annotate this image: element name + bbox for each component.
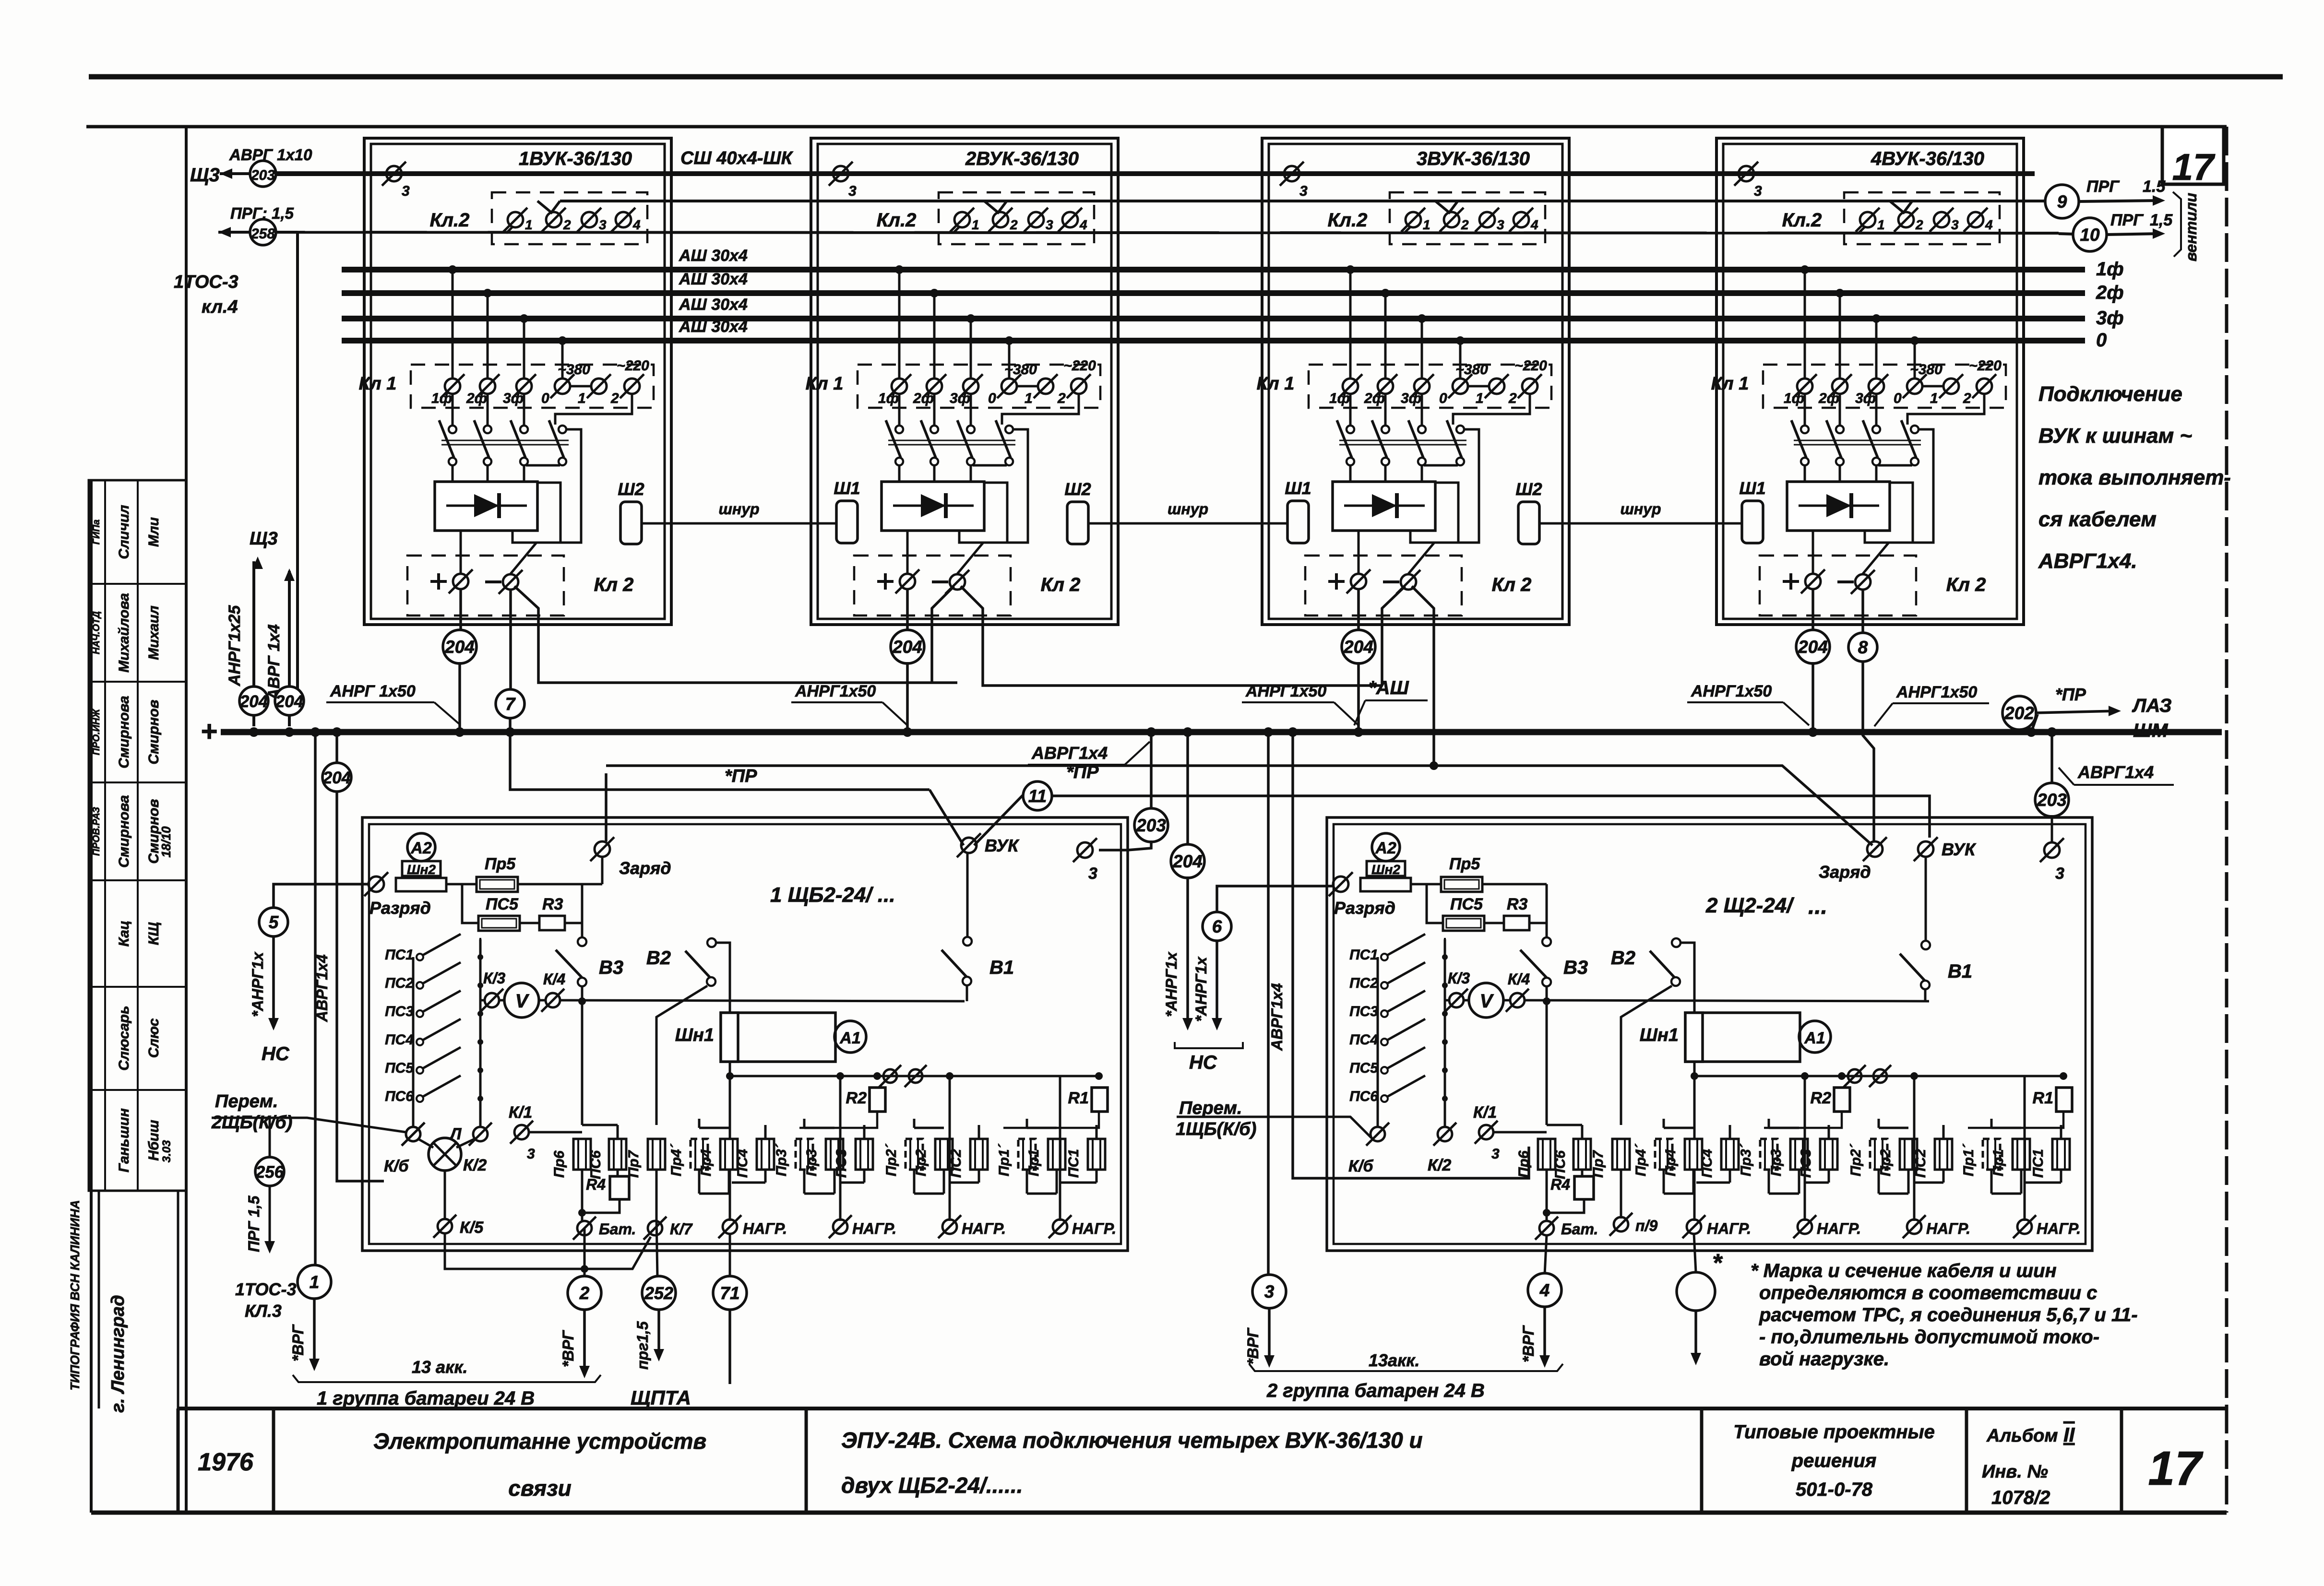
- wire 1 down: [313, 1298, 316, 1367]
- link terminal a: [879, 1065, 901, 1087]
- voltmeter V: [504, 983, 539, 1018]
- stamp row line: [89, 583, 186, 585]
- block frame 1ВУК outer: [364, 138, 671, 625]
- page number box (top right): [2162, 127, 2224, 184]
- terminal - DC: [1396, 570, 1420, 594]
- shunt Шн2 label box: [1367, 861, 1405, 876]
- rectifier box U3: [1333, 482, 1435, 531]
- rectifier unit U3 3ВУК-36/130: [1257, 138, 1569, 625]
- svg-text:~380: ~380: [1910, 362, 1943, 378]
- svg-text:204: 204: [1798, 637, 1828, 657]
- wire ~220 to pole4: [1002, 394, 1079, 425]
- wire rectifier to +: [1358, 531, 1360, 573]
- svg-text:ПС1: ПС1: [1349, 947, 1378, 963]
- wire R2 tap: [1764, 1112, 1842, 1128]
- U3 + wire to bus: [1357, 590, 1360, 631]
- terminal + DC: [449, 569, 473, 593]
- svg-text:9: 9: [2057, 192, 2067, 212]
- wire rectifier to +: [906, 531, 909, 573]
- wire link 0-1: [1468, 385, 1489, 388]
- connection 203: [250, 161, 276, 187]
- fuse ПС5: [478, 916, 520, 931]
- wire branch join down to В3: [581, 884, 584, 937]
- wire К/7 to 252: [656, 1219, 657, 1277]
- svg-text:К/3: К/3: [483, 970, 506, 987]
- switch В1 (2ЩБ): [1921, 941, 1930, 949]
- contact bottom: [1801, 458, 1809, 465]
- terminal НАГР 4: [2013, 1215, 2036, 1238]
- svg-text:ПС5: ПС5: [1450, 895, 1483, 913]
- svg-text:203: 203: [250, 167, 275, 183]
- svg-text:204: 204: [892, 637, 922, 657]
- terminal ∅4: [1509, 208, 1533, 232]
- svg-text:НС: НС: [1189, 1052, 1217, 1073]
- + terminal: [1328, 580, 1345, 583]
- contact bottom: [967, 458, 975, 465]
- shunt Шн1 outer: [721, 1013, 835, 1062]
- terminal К/4: [541, 989, 564, 1012]
- svg-text:2ф: 2ф: [1818, 391, 1839, 406]
- terminal Заряд 1ЩБ: [590, 837, 614, 861]
- bracket 13 акк group2: [1249, 1364, 1563, 1371]
- fuse ПС5: [1443, 916, 1484, 931]
- svg-text:Пр3´: Пр3´: [1738, 1143, 1754, 1176]
- contact top: [1801, 426, 1809, 433]
- terminal Кл1 1ф: [1793, 374, 1817, 398]
- svg-text:Сличил: Сличил: [116, 505, 132, 559]
- switch ПС4 blade: [1387, 1019, 1425, 1040]
- terminal strip Кл1 of U1: [411, 365, 654, 408]
- wire АНРГ1х25 up: [252, 561, 255, 717]
- junction tap 3: [966, 314, 975, 323]
- svg-text:1: 1: [1877, 217, 1885, 232]
- svg-text:R3: R3: [1507, 895, 1528, 913]
- junction tap 1: [895, 265, 904, 274]
- switch В2 blade: [685, 951, 710, 978]
- svg-text:НАГР.: НАГР.: [962, 1220, 1006, 1237]
- svg-text:* Марка и сечение кабеля и шин: * Марка и сечение кабеля и шин: [1751, 1260, 2057, 1281]
- svg-text:1ф: 1ф: [1784, 391, 1804, 406]
- svg-text:256: 256: [255, 1163, 284, 1182]
- svg-text:18/10: 18/10: [159, 826, 173, 858]
- wire шнур link: [1088, 522, 1287, 525]
- junction on + bus: [1354, 727, 1363, 737]
- connector Ш2 of U1: [620, 502, 642, 544]
- svg-text:К/3: К/3: [1448, 970, 1470, 987]
- connection (unnumbered): [1677, 1272, 1715, 1311]
- connection 204 (left a): [239, 686, 268, 715]
- switch ПС6 blade: [423, 1076, 461, 1097]
- terminal strip Кл2(DC) of U1: [407, 556, 564, 615]
- junction on + bus: [2047, 727, 2057, 737]
- terminal Кл1 3ф: [512, 374, 536, 398]
- svg-text:2: 2: [1915, 217, 1923, 232]
- svg-text:*АНРГ1х: *АНРГ1х: [1192, 957, 1210, 1022]
- svg-text:Пр5: Пр5: [1449, 855, 1480, 873]
- block frame 2ВУК outer: [811, 138, 1118, 625]
- terminal п/9: [1609, 1213, 1633, 1236]
- terminal strip Кл.2 of U2: [939, 192, 1094, 244]
- switch linkage bar2: [1339, 444, 1466, 446]
- terminal Кл1 2ф: [922, 374, 946, 398]
- svg-text:ся кабелем: ся кабелем: [2038, 508, 2157, 531]
- wire tap down: [1459, 341, 1462, 378]
- junction on + bus: [285, 727, 294, 737]
- svg-text:ПС6: ПС6: [588, 1150, 604, 1179]
- svg-text:3: 3: [402, 183, 410, 199]
- wire Шн2 to Пр5: [1411, 883, 1441, 886]
- wire group mid down: [839, 1076, 842, 1221]
- svg-text:Бат.: Бат.: [1561, 1220, 1598, 1238]
- svg-text:1: 1: [525, 217, 533, 232]
- wire link 0-1: [571, 385, 591, 388]
- svg-text:АВРГ1х4.: АВРГ1х4.: [2038, 549, 2137, 573]
- svg-text:1: 1: [1476, 391, 1484, 406]
- connection 258: [250, 219, 276, 245]
- battery switchboard 2ЩБ2-24: [1327, 817, 2092, 1251]
- resistor R4: [1574, 1176, 1594, 1199]
- svg-text:ПС3: ПС3: [1349, 1004, 1378, 1019]
- svg-text:Пр1´: Пр1´: [996, 1143, 1012, 1176]
- svg-text:ПС6: ПС6: [1349, 1089, 1378, 1104]
- wire СШ 40x4: [276, 171, 2035, 176]
- - terminal: [1837, 580, 1854, 583]
- contact top: [449, 426, 456, 433]
- wire pole to rectifier: [1421, 465, 1423, 482]
- junction tap 4: [1910, 336, 1919, 345]
- svg-text:шнур: шнур: [1620, 500, 1661, 518]
- svg-text:*ПР: *ПР: [2055, 685, 2086, 704]
- stamp row line: [89, 879, 186, 881]
- svg-text:Пр3: Пр3: [804, 1149, 820, 1176]
- contact bottom: [1418, 458, 1426, 465]
- svg-text:Слюс: Слюс: [146, 1018, 162, 1058]
- terminal СШ entry U2: [829, 162, 853, 186]
- svg-text:К/4: К/4: [543, 971, 566, 988]
- svg-text:Заряд: Заряд: [619, 858, 671, 878]
- svg-text:Типовые проектные: Типовые проектные: [1733, 1421, 1935, 1443]
- shunt Шн1 outer: [1685, 1013, 1800, 1062]
- wire Перем to К/б: [212, 1118, 406, 1132]
- wire tap down: [1839, 293, 1841, 378]
- terminal К/1: [1475, 1121, 1498, 1144]
- svg-text:ЭПУ-24В. Схема подключения: ЭПУ-24В. Схема подключения четырех ВУК-3…: [841, 1428, 1423, 1453]
- fuse Пр3´: [796, 1139, 813, 1170]
- wire *ПР V to ВУК 1ЩБ: [930, 790, 964, 845]
- terminal Кл1 1ф: [441, 374, 465, 398]
- contact bottom: [449, 458, 456, 465]
- junction tap 4: [1456, 336, 1465, 345]
- wire group mid down: [1804, 1076, 1806, 1221]
- svg-text:R1: R1: [1068, 1089, 1089, 1107]
- svg-text:Ш2: Ш2: [618, 479, 644, 499]
- terminal СШ entry U4: [1734, 162, 1758, 186]
- frame top border: [86, 125, 2227, 129]
- wire Пр6-ПС6 top tie: [1547, 1124, 1582, 1126]
- terminal 3 1ЩБ: [1073, 838, 1097, 862]
- junction tap 2: [483, 289, 492, 297]
- wire R2 tap: [799, 1112, 877, 1128]
- fuse ПС6: [1573, 1139, 1591, 1170]
- svg-text:Ш1: Ш1: [834, 478, 860, 498]
- svg-text:Пр1: Пр1: [1990, 1149, 2006, 1176]
- svg-text:204: 204: [322, 769, 351, 787]
- group bottom tie: [804, 1193, 834, 1195]
- wire linking Кл.2 outputs: [560, 200, 2059, 202]
- svg-text:R4: R4: [586, 1176, 606, 1193]
- wire tap down: [1384, 293, 1387, 378]
- wire В2 to Пр7: [656, 986, 707, 1125]
- connection 204 (U3+): [1342, 630, 1375, 663]
- switch В2 top: [707, 938, 716, 947]
- group top tie: [1991, 1127, 2021, 1129]
- svg-text:Альбом: Альбом: [1986, 1426, 2058, 1446]
- wire branch join down to В3: [1546, 884, 1548, 937]
- wire to ПС5: [1427, 884, 1443, 923]
- svg-text:КЛ.3: КЛ.3: [245, 1301, 282, 1321]
- wire pole4 top to aux box: [1458, 429, 1479, 543]
- svg-text:1 ЩБ2-24/ ...: 1 ЩБ2-24/ ...: [770, 883, 895, 907]
- title block divider: [272, 1408, 275, 1513]
- resistor R3: [1504, 916, 1529, 930]
- wire to Щ3: [220, 172, 250, 175]
- wire distribution y2243: [730, 1075, 1099, 1077]
- svg-text:В2: В2: [1611, 947, 1635, 969]
- wire 258 entering down to DC bus: [274, 231, 298, 234]
- terminal Кл1 3ф: [1864, 374, 1888, 398]
- terminal ∅4: [1058, 208, 1082, 232]
- svg-text:вентили: вентили: [2182, 193, 2200, 261]
- rectifier unit U4 4ВУК-36/130: [1711, 138, 2024, 625]
- svg-text:кл.4: кл.4: [202, 297, 238, 317]
- wire Перем to К/б (2ЩБ): [1177, 1117, 1371, 1138]
- group top tie: [804, 1127, 834, 1129]
- link terminal a: [1844, 1065, 1866, 1087]
- junction tap 2: [1381, 289, 1390, 297]
- connection 204 (U1+): [443, 630, 477, 663]
- svg-text:ПС1: ПС1: [1066, 1149, 1082, 1178]
- svg-text:1: 1: [972, 217, 979, 232]
- svg-text:8: 8: [1858, 638, 1868, 657]
- svg-text:203: 203: [1136, 816, 1166, 835]
- svg-text:204: 204: [1343, 637, 1373, 657]
- wire V-link СШ to ∅2: [1435, 201, 1458, 213]
- contact bottom: [1456, 458, 1464, 465]
- svg-text:1: 1: [1930, 391, 1938, 406]
- svg-text:ПС1: ПС1: [385, 947, 414, 963]
- wire bus to 203 (2ЩБ): [2050, 735, 2053, 785]
- terminal Кл1 3ф: [1410, 374, 1434, 398]
- terminal strip Кл.2 of U4: [1844, 192, 2000, 244]
- shunt Шн1 bar: [1685, 1013, 1703, 1062]
- svg-text:ПРГ 1,5: ПРГ 1,5: [245, 1195, 262, 1252]
- ammeter А1: [834, 1021, 866, 1053]
- rectifier box U4: [1787, 482, 1890, 531]
- svg-text:Кл 2: Кл 2: [1946, 574, 1986, 595]
- svg-text:К/2: К/2: [463, 1156, 487, 1174]
- svg-text:7: 7: [505, 694, 516, 714]
- svg-text:1: 1: [1423, 217, 1430, 232]
- terminal Заряд 2ЩБ: [1863, 837, 1887, 861]
- wire R1 tap: [1968, 1112, 2063, 1128]
- svg-text:К/б: К/б: [384, 1157, 409, 1175]
- svg-text:3: 3: [1299, 183, 1308, 199]
- svg-text:Инв. №: Инв. №: [1982, 1462, 2048, 1482]
- svg-text:ПС4: ПС4: [735, 1149, 751, 1178]
- switch ПС3 blade: [1387, 991, 1425, 1012]
- fuse Пр1: [1048, 1139, 1065, 1170]
- group bottom tie: [1769, 1193, 1799, 1195]
- wire ∅1 to ПРГ wire: [1404, 226, 1411, 233]
- svg-text:4: 4: [1539, 1280, 1550, 1300]
- connection 204 (U2+): [891, 630, 924, 663]
- aux frame of rectifier U1: [512, 483, 560, 543]
- svg-text:204: 204: [444, 637, 475, 657]
- wire to ПС5: [462, 884, 478, 923]
- wire U4- down to Заряд 2ЩБ: [1863, 662, 1874, 841]
- wire V-link СШ to ∅2: [984, 201, 1007, 213]
- svg-text:ВУК: ВУК: [1942, 840, 1977, 859]
- svg-text:~380: ~380: [1455, 362, 1488, 378]
- wire В2 to Пр7: [1621, 986, 1672, 1125]
- terminal strip Кл1 of U4: [1763, 365, 2006, 408]
- stamp col divider 2: [137, 480, 139, 1191]
- svg-text:В3: В3: [1563, 957, 1588, 978]
- switch ПС4 blade: [423, 1019, 461, 1040]
- terminal strip Кл.2 of U3: [1390, 192, 1545, 244]
- contact top: [1872, 426, 1880, 433]
- wire Кл1 to pole: [523, 394, 525, 426]
- connection 3: [1252, 1275, 1286, 1308]
- shunt Шн2 bar: [1360, 878, 1411, 891]
- svg-text:НАГР.: НАГР.: [852, 1220, 896, 1237]
- terminal ∅3: [1930, 208, 1954, 232]
- diode cathode bar: [944, 493, 948, 518]
- fuse Пр7: [648, 1139, 665, 1170]
- contact top: [895, 426, 903, 433]
- wire К/1 to fuse bus: [1493, 1131, 1547, 1134]
- wire К/1 to fuse bus: [529, 1131, 582, 1134]
- contact bottom: [1347, 458, 1354, 465]
- svg-text:Пр3: Пр3: [1768, 1149, 1784, 1176]
- wire pole to rectifier: [1839, 465, 1841, 482]
- terminal Кл1 3ф: [959, 374, 983, 398]
- svg-text:3.03: 3.03: [160, 1140, 173, 1162]
- wire Пр7 down: [1620, 1170, 1622, 1219]
- junction on + bus: [505, 727, 515, 737]
- connection 4: [1528, 1273, 1561, 1307]
- wire U1- to U2- link (y1423): [514, 586, 957, 683]
- svg-text:0: 0: [541, 391, 549, 406]
- wire Пр5 to Заряд stem: [582, 883, 602, 886]
- svg-text:3: 3: [527, 1146, 535, 1162]
- switch blade: [1901, 420, 1916, 458]
- title block divider: [177, 1408, 180, 1513]
- fuse ПС1: [2052, 1139, 2070, 1170]
- group bottom tie: [914, 1193, 944, 1195]
- svg-text:определяются в соответствии с: определяются в соответствии с: [1759, 1282, 2098, 1303]
- svg-text:4: 4: [1530, 217, 1538, 232]
- rectifier box U2: [882, 482, 984, 531]
- svg-text:204: 204: [239, 692, 268, 711]
- contact top: [1005, 426, 1013, 433]
- svg-text:Михаил: Михаил: [146, 605, 162, 660]
- svg-text:Кл.2: Кл.2: [430, 210, 470, 231]
- switch blade: [1337, 420, 1352, 458]
- riser bus->204 into 1ЩБ: [335, 735, 338, 762]
- diode symbol: [1799, 505, 1879, 507]
- wire tap down: [1875, 319, 1878, 378]
- terminal СШ entry U3: [1280, 162, 1304, 186]
- block frame ЩБ outer: [1327, 817, 2092, 1251]
- terminal Кл1 2ф: [476, 374, 500, 398]
- wire Кл1 to pole: [1839, 394, 1841, 426]
- svg-text:К/б: К/б: [1348, 1157, 1373, 1175]
- ammeter A2: [1372, 833, 1400, 861]
- terminal К/1: [510, 1121, 533, 1144]
- svg-text:расчетом ТРС, я соединения 5,6: расчетом ТРС, я соединения 5,6,7 и 11-: [1759, 1304, 2138, 1326]
- terminal Кл1 0: [1903, 374, 1927, 398]
- svg-text:ПС4: ПС4: [1349, 1032, 1378, 1048]
- terminal К/3: [480, 989, 503, 1012]
- svg-text:Кл 2: Кл 2: [1041, 574, 1081, 595]
- wire К/4 to В1: [1525, 1000, 1929, 1001]
- switch linkage bar2: [888, 444, 1015, 446]
- svg-text:Ш2: Ш2: [1064, 479, 1091, 499]
- drawing border inner left: [177, 1191, 179, 1408]
- svg-text:АНРГ1х25: АНРГ1х25: [226, 605, 244, 686]
- wire Заряд up to charge wire: [605, 773, 608, 841]
- wire tap down: [933, 293, 936, 378]
- svg-text:R3: R3: [542, 895, 563, 913]
- terminal Разряд: [1329, 872, 1353, 896]
- svg-text:17: 17: [2148, 1442, 2204, 1495]
- svg-text:Ганьшин: Ганьшин: [116, 1108, 132, 1172]
- terminal ∅3: [577, 208, 601, 232]
- svg-text:АНРГ1х50: АНРГ1х50: [1896, 683, 1977, 701]
- svg-text:Л: Л: [449, 1125, 462, 1143]
- svg-text:2: 2: [1963, 391, 1971, 406]
- fuse Пр4´: [1655, 1139, 1672, 1170]
- svg-text:Перем.: Перем.: [1179, 1098, 1242, 1118]
- svg-text:ПС2: ПС2: [1349, 975, 1378, 991]
- terminal ∅3: [1475, 208, 1499, 232]
- shunt Шн2 label box: [402, 861, 441, 876]
- title block divider: [2120, 1408, 2123, 1513]
- svg-text:В3: В3: [599, 957, 623, 978]
- contact top: [1347, 426, 1354, 433]
- fuse ПС2: [970, 1139, 988, 1170]
- svg-text:К/1: К/1: [1473, 1103, 1497, 1122]
- switch linkage bar2: [1794, 444, 1921, 446]
- svg-text:Кл 1: Кл 1: [806, 374, 844, 394]
- svg-text:V: V: [1480, 991, 1494, 1012]
- wire ВУК to В1: [966, 853, 969, 937]
- svg-text:А1: А1: [1804, 1029, 1825, 1047]
- svg-text:СШ 40х4-ШК: СШ 40х4-ШК: [680, 148, 794, 168]
- svg-text:ПРГ: ПРГ: [2110, 211, 2144, 229]
- svg-text:17: 17: [2172, 146, 2216, 188]
- switch ПС6 blade: [1387, 1076, 1425, 1097]
- terminal НАГР 4: [1049, 1215, 1072, 1238]
- wire К/5 over to К/7: [445, 1233, 651, 1269]
- connection 203 (1ЩБ): [1134, 808, 1168, 842]
- resistor R1: [2056, 1088, 2072, 1112]
- svg-text:2: 2: [579, 1283, 590, 1303]
- svg-text:3: 3: [848, 183, 857, 199]
- wire Кл1 to pole: [487, 394, 489, 426]
- junction on + bus: [455, 727, 465, 737]
